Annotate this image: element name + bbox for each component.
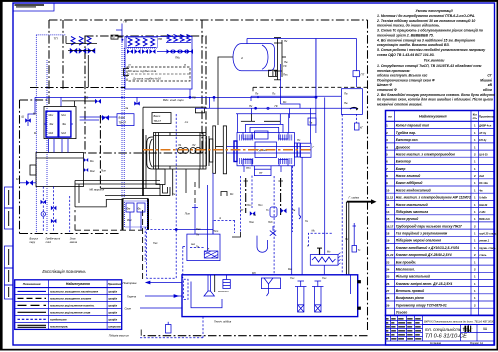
svg-text:3. Схема Тс працюють з обслуго: 3. Схема Тс працюють з обслуговуванням р… — [377, 29, 483, 33]
svg-text:Г. свіжа: Г. свіжа — [349, 196, 360, 200]
svg-text:обсяги експлуат. Всього хгс: обсяги експлуат. Всього хгс — [377, 74, 428, 78]
gauges right — [352, 114, 364, 252]
svg-text:1. Споруджених станції ТмСП,: 1. Споруджених станції ТмСП, ТВ 101/8ТЕ-… — [377, 64, 482, 68]
svg-text:механічні степені вказані.: механічні степені вказані. — [377, 102, 423, 106]
svg-text:ПК: ПК — [124, 20, 128, 24]
svg-text:мастило змащення нагнітання: мастило змащення нагнітання — [50, 290, 98, 294]
svg-text:Тмг: Тмг — [196, 227, 201, 231]
turbo generator: motor body — [147, 133, 206, 170]
aux box TV-57 left — [117, 114, 134, 126]
svg-text:Умови експлуатації: Умови експлуатації — [415, 9, 453, 13]
svg-text:Бак провідн.: Бак провідн. — [396, 260, 417, 264]
svg-text:Пкс: Пкс — [283, 73, 288, 77]
drain risers with valves (wires) — [43, 187, 69, 233]
svg-text:4. Всі технічні станції на 3 н: 4. Всі технічні станції на 3 найближчі 1… — [376, 38, 475, 42]
valve on header — [95, 99, 101, 104]
svg-text:1. Монтаж і до випробування го: 1. Монтаж і до випробування головної ПТВ… — [377, 14, 475, 18]
tank drain valve — [26, 180, 33, 186]
connection filter to header (wire) — [80, 117, 117, 120]
pipe labels near legend — [123, 281, 138, 311]
svg-text:Кіл: Кіл — [473, 112, 477, 116]
dashed blue vertical right (wire) — [341, 114, 343, 274]
valve on drain 1 — [41, 200, 47, 204]
dashed drop below tank (wire) — [202, 317, 204, 338]
deaerator vessel — [233, 44, 275, 71]
labyrinth teeth — [240, 135, 292, 165]
svg-text:Пс: Пс — [272, 92, 276, 96]
svg-text:графік: графік — [108, 311, 117, 315]
oil discharge thick (wire) — [143, 129, 146, 196]
svg-text:Пст: Пст — [101, 169, 107, 173]
black tick into cooler — [317, 248, 322, 255]
left margin stamp boxes — [5, 187, 14, 299]
svg-text:Пст: Пст — [185, 212, 191, 216]
svg-text:2. Всі благодійні пошуки регул: 2. Всі благодійні пошуки регулюються схе… — [376, 93, 496, 97]
black drain header (wire) — [143, 107, 206, 129]
svg-text:Клапан запобіжний з ДУ10/13-2,: Клапан запобіжний з ДУ10/13-2,5-УХЛ4 — [396, 246, 459, 250]
top-left stamp box — [13, 3, 54, 11]
svg-text:Мог: Мог — [61, 114, 66, 117]
dashed sub-box with labels (valves control) — [127, 63, 190, 81]
svg-text:Фм: Фм — [62, 123, 66, 126]
dashed header (black) — [253, 87, 367, 92]
small box Pv near turbine top — [308, 118, 316, 125]
svg-text:ДКВР-4сп: ДКВР-4сп — [479, 125, 491, 128]
svg-text:Вимірювач рівня: Вимірювач рівня — [396, 296, 424, 300]
svg-text:Ежектор осн.: Ежектор осн. — [396, 138, 419, 142]
drain pots and valves — [270, 207, 277, 217]
valve PT on riser — [353, 71, 365, 88]
tank internals — [204, 275, 230, 296]
svg-text:Газ порційний з регулюванням: Газ порційний з регулюванням — [396, 232, 448, 236]
svg-text:15: 15 — [386, 217, 390, 221]
svg-text:Пст: Пст — [213, 229, 219, 233]
svg-text:Тнг: Тнг — [290, 276, 295, 280]
svg-text:Турбіна пар.: Турбіна пар. — [396, 131, 416, 135]
svg-text:5. Схема роботи і техніки необ: 5. Схема роботи і техніки необхідні уста… — [377, 48, 486, 52]
svg-text:Повітряне: Повітряне — [123, 281, 138, 285]
svg-text:Фм: Фм — [50, 123, 54, 126]
svg-text:Фм: Фм — [127, 208, 131, 211]
svg-text:Найменування: Найменування — [66, 282, 90, 286]
svg-text:Техніч. відбив: Техніч. відбив — [214, 320, 232, 324]
svg-text:Формат А1: Формат А1 — [470, 341, 484, 345]
svg-text:комунікацію завдів. Вказати шв: комунікацію завдів. Вказати швидкий ВЗ. — [377, 43, 450, 47]
svg-text:Клапан зворотний ДУ-25/40-2,5У: Клапан зворотний ДУ-25/40-2,5У4 — [396, 253, 452, 257]
svg-text:АТ-6у: АТ-6у — [479, 132, 486, 135]
svg-text:ТВ-С7: ТВ-С7 — [119, 121, 127, 125]
svg-text:Тнг: Тнг — [322, 276, 327, 280]
valve Mk — [102, 115, 109, 121]
svg-text:Підігрівач мастила: Підігрівач мастила — [396, 210, 429, 214]
svg-text:13: 13 — [386, 203, 390, 207]
svg-text:П: П — [129, 63, 131, 67]
spring battery left — [127, 38, 156, 54]
svg-text:ПВ: ПВ — [84, 95, 88, 99]
parts list table — [386, 111, 495, 316]
generator-side coupling disc — [234, 141, 237, 162]
svg-text:КС-12в: КС-12в — [479, 182, 488, 185]
svg-text:Пв: Пв — [344, 92, 348, 96]
svg-text:Тм: Тм — [196, 234, 199, 237]
svg-text:НШ-32: НШ-32 — [479, 204, 488, 207]
svg-text:ПТ: ПТ — [259, 171, 263, 175]
title block — [386, 315, 495, 345]
svg-text:Фільтр мастильний: Фільтр мастильний — [396, 275, 430, 279]
svg-text:штрихов: штрихов — [108, 325, 121, 328]
tank inner line — [191, 275, 351, 308]
tank side nozzles — [358, 281, 361, 310]
svg-text:Злив: Злив — [70, 237, 76, 241]
svg-text:схема ОДО ТВ 1-43-64 ВСТ 101-9: схема ОДО ТВ 1-43-64 ВСТ 101-93. — [377, 53, 435, 57]
svg-text:28: 28 — [386, 296, 390, 300]
svg-text:Позначення: Позначення — [23, 282, 41, 286]
svg-text:Ш: Ш — [22, 115, 25, 119]
solid risers to tank (wires) — [292, 39, 325, 275]
svg-text:2. Техніка підйому швидкості 3: 2. Техніка підйому швидкості 30 км голов… — [376, 19, 475, 23]
svg-text:Найменування: Найменування — [419, 115, 447, 119]
svg-text:Копіював: Копіював — [430, 341, 442, 345]
crossed drain symbol — [270, 226, 276, 236]
svg-text:Гребінчасті: Гребінчасті — [46, 237, 61, 241]
svg-text:пт: пт — [185, 121, 188, 124]
svg-text:Своя: Своя — [125, 307, 132, 311]
svg-text:Вент: Вент — [154, 114, 162, 118]
svg-text:0,4кВт: 0,4кВт — [479, 197, 487, 200]
svg-text:Примітка: Примітка — [479, 115, 494, 119]
svg-text:графік: графік — [108, 297, 117, 301]
reduction-cooling unit box — [125, 37, 192, 90]
valve on drain 2 — [51, 206, 57, 210]
black lines near support (wires) — [100, 188, 170, 195]
svg-text:П: П — [184, 63, 186, 67]
svg-text:2м3: 2м3 — [479, 175, 484, 178]
svg-text:Клапани запірні вент. ДУ-15-2,: Клапани запірні вент. ДУ-15-2,5У4 — [396, 282, 453, 286]
svg-text:Котел паровий тип: Котел паровий тип — [396, 124, 429, 128]
svg-text:ПВ: ПВ — [158, 37, 162, 41]
svg-text:технічні тиски, до інших відхи: технічні тиски, до інших відхилень. — [377, 24, 440, 28]
steam chest over turbine — [236, 108, 316, 139]
black drop pipes — [246, 178, 281, 215]
boundary: blue dashed left riser — [36, 35, 66, 232]
svg-text:27: 27 — [386, 289, 390, 293]
svg-text:Підігрів мастил: Підігрів мастил — [109, 334, 130, 338]
svg-text:ТЛ 0-6 31/10-СЕ: ТЛ 0-6 31/10-СЕ — [425, 334, 467, 340]
svg-text:ПВ: ПВ — [192, 95, 196, 99]
svg-text:ТВ-С7: ТВ-С7 — [154, 119, 162, 123]
svg-text:ВКРХХ.Пояснювальна записка до: ВКРХХ.Пояснювальна записка до дипл. ТЕЦ-… — [424, 320, 494, 324]
svg-text:Гаряча: Гаряча — [127, 295, 136, 299]
svg-text:14: 14 — [386, 210, 390, 214]
fresh steam main (thick black) — [346, 196, 376, 275]
inner boundary leg (dash-dot) — [99, 115, 101, 188]
svg-text:масла: масла — [70, 241, 78, 244]
tank inlet pipes (wire) — [49, 139, 69, 153]
svg-text:24: 24 — [386, 268, 390, 272]
main oil tank — [182, 275, 358, 317]
svg-text:Л1: Л1 — [177, 143, 182, 147]
gauge on drain — [41, 212, 45, 216]
svg-text:Насос конденсатний: Насос конденсатний — [396, 188, 431, 192]
duplex oil filter — [123, 199, 149, 231]
dashed risers below turbine (wires) — [241, 166, 293, 275]
coupling right — [294, 143, 311, 157]
svg-text:Ш-8-25: Ш-8-25 — [479, 153, 488, 156]
tank outlet piping black (wire) — [75, 181, 160, 207]
svg-text:Примітка: Примітка — [108, 282, 122, 286]
svg-text:сть: сть — [473, 117, 478, 120]
svg-text:Термометр опору ТСП-0879-01: Термометр опору ТСП-0879-01 — [396, 303, 447, 307]
turbine casing — [237, 133, 294, 166]
svg-text:29: 29 — [386, 303, 390, 307]
svg-text:графік: графік — [108, 304, 117, 308]
aux steam line (wire) — [251, 96, 341, 101]
PV box — [341, 89, 362, 115]
svg-text:20: 20 — [386, 246, 390, 250]
svg-text:Насос мастильний: Насос мастильний — [396, 203, 428, 207]
safety valve group TP (springs) — [54, 36, 98, 54]
svg-text:Тмг: Тмг — [153, 241, 158, 245]
svg-text:графік: графік — [108, 290, 117, 294]
fan box Vent TV-S7 — [152, 113, 171, 124]
secondary steam header (wire) — [195, 97, 357, 118]
svg-text:Штат Ф: Штат Ф — [377, 83, 392, 87]
svg-text:Пкм: Пкм — [249, 221, 254, 224]
svg-text:графік: графік — [108, 318, 117, 322]
svg-text:25: 25 — [386, 275, 390, 279]
inner boundary segment (dash-dot) — [30, 87, 125, 89]
svg-text:Насос мастил. з електроприводо: Насос мастил. з електроприводом — [396, 152, 456, 156]
vent riser blue (wire) — [279, 64, 281, 104]
svg-text:Ежектор: Ежектор — [396, 160, 411, 164]
mid drop lines (wires) — [176, 114, 234, 233]
svg-text:Насос зливний: Насос зливний — [396, 174, 421, 178]
svg-text:Пс: Пс — [275, 104, 279, 108]
svg-text:Бакон відбірний: Бакон відбірний — [396, 181, 423, 185]
svg-text:Відс. конд. пари: Відс. конд. пари — [163, 98, 184, 102]
main oil header thick black (wire) — [83, 128, 152, 130]
svg-text:Димосос: Димосос — [395, 145, 411, 149]
svg-text:пару: пару — [30, 241, 36, 244]
svg-text:23: 23 — [386, 260, 390, 264]
U-tube seal — [257, 236, 268, 253]
oil cooler Mz — [310, 250, 340, 275]
oil pumps in tank — [295, 281, 324, 312]
technical notes text block — [376, 9, 496, 106]
svg-text:Тм: Тм — [196, 246, 199, 249]
svg-text:Пв: Пв — [344, 101, 348, 105]
svg-text:19: 19 — [386, 239, 390, 243]
level gauge manifold — [274, 38, 286, 80]
boundary: boiler room box (dash-dot) — [85, 20, 206, 153]
svg-text:Л2: Л2 — [191, 143, 196, 147]
vessel top pipe to right (wire) — [247, 39, 357, 98]
svg-text:2 кВт: 2 кВт — [479, 211, 486, 214]
svg-text:Насос ручний: Насос ручний — [396, 217, 419, 221]
svg-text:станичні Ф: станичні Ф — [377, 88, 397, 92]
shaft centerline (orange) — [143, 149, 312, 151]
svg-text:Тм: Тм — [172, 192, 175, 196]
gauge box PG — [111, 35, 123, 41]
motor bearings — [178, 148, 202, 154]
svg-text:БКФ-2сб: БКФ-2сб — [479, 218, 490, 221]
svg-text:Бакер: Бакер — [396, 167, 406, 171]
svg-text:технічний зріст 2. ВВВВВВВ 75.: технічний зріст 2. ВВВВВВВ 75. — [377, 33, 434, 37]
svg-text:пружн. сталь: пружн. сталь — [479, 247, 496, 250]
svg-text:Випуск: Випуск — [30, 237, 39, 241]
motor support — [156, 169, 170, 196]
condenser connections (wires) — [244, 166, 281, 172]
valve on drain 3 — [51, 219, 57, 223]
misc small labels — [153, 192, 349, 248]
svg-text:Пкл: Пкл — [247, 204, 252, 207]
svg-text:мастопров.: мастопров. — [50, 324, 68, 328]
svg-text:мастило ущільнення злив: мастило ущільнення злив — [50, 311, 90, 315]
svg-text:течі: течі — [46, 240, 52, 244]
boundary: main enclosure (dash-dot) — [20, 20, 368, 336]
cooler bypass dashed box — [308, 233, 332, 246]
svg-text:Мішані: Мішані — [480, 78, 493, 82]
svg-text:До затв. турбіни №1б: До затв. турбіни №1б — [132, 77, 161, 81]
svg-text:Мб: Мб — [252, 271, 256, 275]
gauge line Sh — [28, 97, 61, 126]
svg-text:...: ... — [150, 218, 152, 221]
oil injector unit — [187, 234, 220, 261]
spring battery right — [157, 35, 193, 60]
dashed oil line down (wire) — [144, 227, 146, 262]
svg-text:18: 18 — [386, 232, 390, 236]
condenser box PT — [246, 166, 271, 176]
svg-text:Маслоохол.: Маслоохол. — [396, 268, 415, 272]
svg-text:11,12: 11,12 — [386, 196, 393, 200]
svg-text:ПТг: ПТг — [246, 166, 251, 170]
svg-text:4м: 4м — [479, 189, 482, 192]
svg-text:Експлікація позначень: Експлікація позначень — [42, 269, 85, 274]
svg-text:сталь: сталь — [479, 254, 487, 257]
svg-text:конденсат: конденсат — [50, 318, 67, 322]
svg-text:ПКс: ПКс — [175, 56, 181, 60]
condensate header (wire) — [35, 97, 316, 103]
svg-text:мастило змащення зливне: мастило змащення зливне — [50, 297, 91, 301]
svg-text:Мог: Мог — [49, 114, 54, 117]
svg-text:-: - — [472, 327, 473, 331]
oil tank — [30, 153, 84, 187]
svg-text:Інж: Інж — [191, 242, 195, 246]
svg-text:кВ: кВ — [488, 83, 493, 87]
svg-text:10: 10 — [386, 188, 390, 192]
svg-text:Мгд: Мгд — [61, 132, 66, 135]
svg-text:техніка протягом:: техніка протягом: — [377, 69, 410, 73]
svg-text:16,17: 16,17 — [386, 224, 394, 228]
black bracket in battery — [124, 69, 130, 76]
svg-text:Мгд: Мгд — [49, 132, 54, 135]
oil filter unit box — [33, 101, 85, 139]
shaft sections — [207, 126, 227, 174]
battery risers (wires) — [137, 89, 317, 105]
svg-text:Нас. мастил. з електродвигуном: Нас. мастил. з електродвигуном АІР 112МУ… — [396, 196, 471, 200]
svg-text:Мнс: Мнс — [90, 169, 96, 173]
turbine shaft — [227, 147, 311, 154]
steam riser PK — [116, 20, 128, 199]
tank side valves — [84, 158, 88, 162]
svg-text:Повітроочисники станції схем Ф: Повітроочисники станції схем Ф — [377, 78, 435, 82]
svg-text:Пкб: Пкб — [268, 221, 273, 224]
svg-text:Усього: Усього — [396, 311, 408, 315]
svg-text:труб.25 сталь: труб.25 сталь — [479, 233, 496, 236]
svg-text:по: по — [388, 115, 392, 119]
svg-text:мастильн: мастильн — [218, 291, 229, 293]
svg-text:Тех.вимоги: Тех.вимоги — [424, 59, 446, 63]
svg-text:ПТ: ПТ — [361, 73, 365, 77]
svg-text:рН: рН — [239, 209, 243, 212]
feed to injector (wires) — [207, 185, 213, 251]
svg-text:Підігрівач мережі опалення: Підігрівач мережі опалення — [396, 239, 441, 243]
black corner piece — [232, 232, 241, 237]
air suction arrow Pv — [292, 208, 301, 220]
svg-text:21,22: 21,22 — [386, 253, 394, 257]
svg-text:ІШ: ІШ — [483, 327, 487, 331]
svg-text:мастило ущільнення нагніт.: мастило ущільнення нагніт. — [50, 304, 95, 308]
motor bottom drops (wires) — [173, 169, 199, 196]
svg-text:Мн: Мн — [90, 159, 94, 163]
svg-text:Трубопровід пари низького тиск: Трубопровід пари низького тиску ПН17 — [396, 224, 462, 228]
air cooling lines (wires) — [140, 281, 182, 308]
boundary: lower-middle (dash) — [75, 210, 143, 279]
svg-text:ЕП-3у: ЕП-3у — [479, 139, 487, 142]
svg-text:по пунктах схем, котлів для як: по пунктах схем, котлів для яких швидше … — [377, 98, 493, 102]
svg-text:Від затв. турбіни №1а: Від затв. турбіни №1а — [128, 69, 157, 73]
drain valve bottom — [166, 322, 172, 333]
vessel feed pipe black (wire) — [195, 57, 277, 125]
svg-text:об/хв: об/хв — [483, 88, 492, 92]
svg-text:Пкл: Пкл — [258, 204, 263, 207]
emergency tank inside — [261, 278, 280, 296]
svg-text:26: 26 — [386, 282, 390, 286]
svg-text:Взам: Взам — [119, 116, 125, 120]
labels under boundary — [30, 237, 78, 245]
svg-text:Пс: Пс — [283, 64, 287, 68]
svg-text:умовн.1: умовн.1 — [479, 240, 489, 243]
svg-text:Вентиль прямий: Вентиль прямий — [396, 289, 425, 293]
left cluster riser black (wire) — [84, 55, 95, 101]
bracket under coupling — [221, 192, 227, 197]
